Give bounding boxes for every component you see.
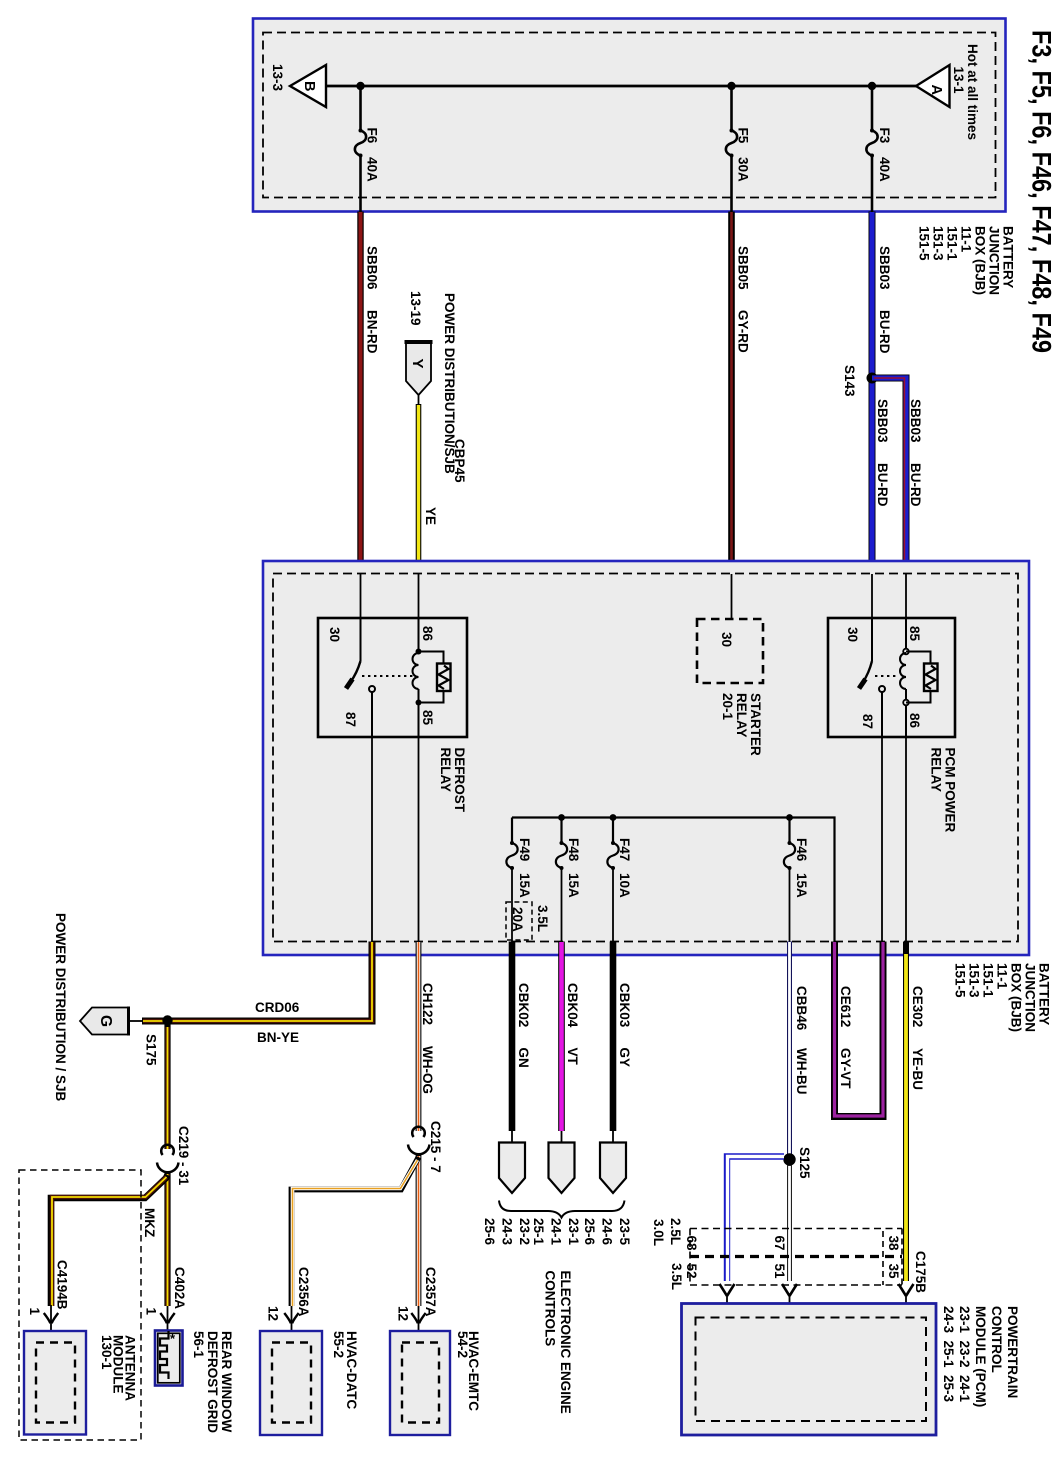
svg-text:38: 38 — [886, 1236, 901, 1252]
svg-text:SBB03: SBB03 — [877, 246, 892, 290]
svg-text:55-2: 55-2 — [331, 1331, 346, 1358]
svg-text:24-3: 24-3 — [500, 1218, 515, 1246]
svg-text:CBK03: CBK03 — [617, 983, 632, 1028]
pin 87 terminal — [369, 686, 375, 692]
svg-text:C4194B: C4194B — [55, 1260, 70, 1310]
svg-text:S143: S143 — [842, 365, 857, 397]
wire into PCM relay 85 — [905, 574, 907, 618]
wire defrost 87 down — [371, 737, 373, 942]
svg-text:52: 52 — [684, 1264, 699, 1279]
svg-text:CBB46: CBB46 — [794, 986, 809, 1031]
svg-text:151-3: 151-3 — [967, 963, 982, 998]
svg-text:F48: F48 — [566, 838, 581, 862]
svg-text:3.5L: 3.5L — [535, 905, 550, 932]
svg-text:C219 - 31: C219 - 31 — [176, 1126, 191, 1186]
svg-text:C175B: C175B — [913, 1251, 928, 1293]
svg-text:13-3: 13-3 — [270, 64, 285, 92]
wire CBB46 WH-BU — [790, 942, 810, 1155]
svg-text:23-5: 23-5 — [617, 1218, 632, 1246]
svg-text:BU-RD: BU-RD — [875, 463, 890, 507]
wire CBK02 GN — [512, 942, 531, 1144]
pin 30 lead — [871, 618, 873, 661]
svg-text:RELAY: RELAY — [438, 748, 453, 793]
wire SBB06 BN-RD — [361, 212, 380, 575]
svg-text:87: 87 — [343, 712, 358, 727]
fuse F3 40A — [866, 86, 892, 212]
svg-text:CE302: CE302 — [910, 986, 925, 1027]
svg-text:CE612: CE612 — [838, 986, 853, 1027]
svg-text:C2356A: C2356A — [296, 1267, 311, 1317]
svg-text:130-1: 130-1 — [99, 1335, 114, 1370]
svg-text:151-3: 151-3 — [931, 226, 946, 261]
svg-text:30: 30 — [845, 627, 860, 642]
wire SBB05 GY-RD — [732, 212, 751, 575]
svg-text:54-2: 54-2 — [455, 1331, 470, 1358]
svg-text:86: 86 — [420, 626, 435, 642]
wire into starter relay 30 — [731, 574, 733, 619]
svg-text:BOX (BJB): BOX (BJB) — [1009, 963, 1024, 1032]
svg-text:Y: Y — [409, 359, 426, 369]
svg-text:F49: F49 — [517, 838, 532, 861]
wire CBK03 GY — [613, 942, 632, 1144]
svg-text:24-1: 24-1 — [549, 1218, 564, 1246]
battery junction box (middle BJB enclosure) — [263, 561, 1029, 955]
svg-text:BATTERY: BATTERY — [1037, 963, 1052, 1025]
svg-text:11-1: 11-1 — [995, 963, 1010, 990]
svg-text:BATTERY: BATTERY — [1001, 226, 1016, 288]
inline connector C219-31 — [157, 1126, 191, 1186]
svg-text:3.5L: 3.5L — [669, 1263, 684, 1290]
svg-text:2.5L: 2.5L — [668, 1218, 683, 1245]
brace (engine controls group) — [499, 1201, 625, 1218]
svg-text:WH-OG: WH-OG — [420, 1046, 435, 1094]
connector pin arrow 67/51 — [782, 1284, 797, 1318]
relay starter relay (not used, dashed) — [697, 619, 763, 683]
svg-text:CONTROL: CONTROL — [989, 1306, 1004, 1373]
svg-text:F46: F46 — [794, 838, 809, 862]
svg-text:151-5: 151-5 — [953, 963, 968, 998]
svg-text:35: 35 — [886, 1264, 901, 1280]
svg-text:F6: F6 — [365, 128, 380, 144]
svg-text:1: 1 — [27, 1308, 42, 1316]
svg-text:BU-RD: BU-RD — [908, 463, 923, 507]
svg-text:SBB06: SBB06 — [365, 246, 380, 290]
fuse F48 15A — [556, 818, 581, 942]
MKZ variant enclosure (dashed) — [19, 1170, 141, 1440]
svg-text:F5: F5 — [736, 128, 751, 144]
svg-text:15A: 15A — [566, 873, 581, 898]
wire CE612 GY-VT (U link to fuse bus) — [835, 942, 884, 1117]
wire PCM 87 down — [881, 737, 883, 942]
svg-text:DEFROST GRID: DEFROST GRID — [205, 1331, 220, 1433]
svg-text:CBP45: CBP45 — [452, 439, 467, 483]
fuse bus line — [512, 818, 835, 942]
svg-text:VT: VT — [565, 1048, 580, 1066]
svg-text:151-1: 151-1 — [945, 226, 960, 261]
wire WH-BU to pin 67/51 — [787, 1165, 792, 1281]
wire into defrost relay 30 — [360, 574, 362, 618]
connector pin C4194B 1 — [27, 1260, 70, 1343]
svg-text:1: 1 — [144, 1308, 159, 1316]
svg-text:SBB03: SBB03 — [908, 399, 923, 443]
svg-text:C2357A: C2357A — [423, 1267, 438, 1317]
module HVAC-DATC — [260, 1331, 322, 1435]
ring terminal CBK04 — [549, 1143, 575, 1194]
svg-text:25-6: 25-6 — [482, 1218, 497, 1246]
svg-text:RELAY: RELAY — [734, 693, 749, 738]
mechanical link (dotted) — [875, 675, 898, 677]
svg-text:68: 68 — [684, 1236, 699, 1252]
svg-text:MODULE (PCM): MODULE (PCM) — [973, 1306, 988, 1407]
svg-text:CRD06: CRD06 — [255, 1000, 300, 1015]
label battery junction box (top) — [917, 226, 1016, 295]
svg-text:56-1: 56-1 — [191, 1331, 206, 1359]
svg-text:C402A: C402A — [172, 1267, 187, 1309]
switch arm — [351, 661, 361, 682]
splice S175 — [162, 1015, 172, 1025]
fuse F5 30A — [726, 86, 751, 212]
svg-text:YE-BU: YE-BU — [910, 1048, 925, 1090]
connector Y (power distribution SJB) — [405, 342, 433, 395]
node on bus at F5 — [727, 82, 735, 90]
wire BN-YE MKZ branch — [51, 1175, 168, 1306]
svg-text:GY-RD: GY-RD — [736, 310, 751, 353]
wire into defrost relay 86 — [418, 574, 420, 618]
ring terminal CBK03 — [600, 1143, 626, 1194]
connector pin arrow 38/35 — [899, 1284, 914, 1318]
svg-text:PCM POWER: PCM POWER — [943, 748, 958, 833]
svg-text:30: 30 — [719, 632, 734, 647]
svg-text:24-6: 24-6 — [600, 1218, 615, 1246]
svg-text:BN-RD: BN-RD — [365, 310, 380, 354]
svg-text:85: 85 — [907, 626, 922, 642]
svg-text:GY: GY — [617, 1048, 632, 1068]
svg-text:11-1: 11-1 — [959, 226, 974, 253]
svg-text:ELECTRONIC ENGINE: ELECTRONIC ENGINE — [558, 1271, 573, 1414]
bus wire (hot at all times) — [326, 85, 916, 88]
connector pin arrow 68/52 — [720, 1284, 735, 1318]
svg-text:151-1: 151-1 — [981, 963, 996, 998]
svg-text:CBK04: CBK04 — [565, 983, 580, 1028]
svg-text:15A: 15A — [794, 873, 809, 898]
svg-text:30A: 30A — [736, 157, 751, 182]
svg-text:20A: 20A — [510, 907, 525, 932]
connector pin C2356A 12 — [266, 1267, 312, 1343]
svg-text:10A: 10A — [617, 873, 632, 898]
fuse F6 40A — [355, 86, 380, 212]
svg-text:RELAY: RELAY — [929, 748, 944, 793]
svg-text:C215 - 7: C215 - 7 — [428, 1121, 443, 1173]
svg-text:CONTROLS: CONTROLS — [543, 1271, 558, 1347]
svg-text:CBK02: CBK02 — [516, 983, 531, 1027]
connector pin C2357A 12 — [396, 1267, 439, 1343]
svg-text:POWER DISTRIBUTION / SJB: POWER DISTRIBUTION / SJB — [53, 913, 68, 1102]
node on bus at F3 — [868, 82, 876, 90]
svg-text:F3: F3 — [877, 128, 892, 144]
svg-text:151-5: 151-5 — [917, 226, 932, 261]
svg-text:GN: GN — [516, 1048, 531, 1068]
connector pin C402A 1 — [144, 1267, 188, 1331]
svg-text:25-6: 25-6 — [582, 1218, 597, 1246]
svg-text:23-1 23-2 24-1: 23-1 23-2 24-1 — [957, 1306, 972, 1403]
splice S125 — [783, 1153, 795, 1165]
svg-text:40A: 40A — [877, 157, 892, 182]
wire SBB03 BU-RD (main) — [872, 212, 892, 575]
svg-text:F3, F5, F6, F46, F47, F48, F49: F3, F5, F6, F46, F47, F48, F49 — [1027, 30, 1057, 353]
pin 85 lead and coil — [905, 618, 907, 653]
node bus F47 — [610, 814, 617, 821]
splice S143 — [867, 373, 878, 384]
label 20A (3.5L alt) — [506, 902, 532, 940]
svg-text:DEFROST: DEFROST — [452, 748, 467, 813]
svg-text:SBB03: SBB03 — [875, 399, 890, 443]
svg-text:WH-BU: WH-BU — [794, 1048, 809, 1095]
node bus F48 — [558, 814, 565, 821]
fuse F49 15A — [506, 838, 532, 942]
triangle connector A — [916, 65, 950, 107]
svg-text:BOX (BJB): BOX (BJB) — [973, 226, 988, 295]
svg-text:BU-RD: BU-RD — [877, 310, 892, 354]
module HVAC-EMTC — [390, 1331, 450, 1435]
svg-text:A: A — [928, 85, 944, 96]
label battery junction box (bottom) — [953, 963, 1052, 1032]
svg-text:F47: F47 — [617, 838, 632, 861]
fuse F46 15A — [784, 818, 809, 942]
wire BN-YE from S175 down — [164, 1021, 170, 1149]
svg-text:67: 67 — [772, 1236, 787, 1251]
fuse F47 10A — [607, 818, 632, 942]
svg-text:S125: S125 — [797, 1147, 812, 1179]
svg-text:3.0L: 3.0L — [651, 1219, 666, 1246]
node bus F46 — [786, 814, 793, 821]
svg-text:23-2: 23-2 — [517, 1218, 532, 1245]
svg-text:30: 30 — [327, 627, 342, 642]
wire PCM 86 down — [905, 737, 907, 942]
svg-text:SBB05: SBB05 — [736, 246, 751, 290]
wire CBK04 VT — [562, 942, 581, 1144]
rear window defrost grid — [155, 1331, 183, 1386]
svg-text:STARTER: STARTER — [748, 693, 763, 756]
svg-text:85: 85 — [420, 710, 435, 726]
svg-text:BN-YE: BN-YE — [257, 1030, 299, 1045]
svg-text:15A: 15A — [517, 873, 532, 898]
svg-text:13-19: 13-19 — [408, 291, 423, 326]
svg-text:YE: YE — [423, 507, 438, 525]
wire CH122 WH-OG — [419, 942, 436, 1132]
svg-text:CH122: CH122 — [420, 983, 435, 1025]
svg-text:B: B — [301, 81, 317, 91]
wire BN-YE to C402A — [164, 1173, 170, 1306]
pin 87 terminal — [879, 686, 885, 692]
ring terminal CBK02 — [499, 1143, 525, 1194]
pin 30 lead — [360, 618, 362, 661]
svg-text:S175: S175 — [144, 1034, 159, 1066]
wire CRD06 BN-YE (defrost 87 output to G / S175) — [142, 942, 372, 1046]
svg-text:20-1: 20-1 — [720, 693, 735, 721]
switch arm — [863, 661, 872, 682]
wire WH-OG branch to C2356A — [292, 1157, 419, 1306]
wire defrost 85 down — [418, 737, 420, 942]
resistor loop — [419, 652, 444, 664]
svg-text:G: G — [97, 1015, 114, 1027]
svg-text:POWERTRAIN: POWERTRAIN — [1005, 1306, 1020, 1398]
wire WH-BU branch to pin 68/52 — [727, 1157, 784, 1282]
svg-text:JUNCTION: JUNCTION — [987, 226, 1002, 295]
connector G (power distribution / SJB) — [80, 1007, 142, 1036]
svg-text:GY-VT: GY-VT — [838, 1048, 853, 1089]
svg-text:86: 86 — [907, 713, 922, 729]
wire CBP45 YE — [419, 395, 468, 574]
wire into PCM relay 30 — [871, 574, 873, 618]
svg-text:40A: 40A — [365, 157, 380, 182]
svg-text:87: 87 — [860, 714, 875, 729]
antenna module — [24, 1331, 86, 1435]
inline connector C215-7 — [408, 1121, 443, 1173]
svg-text:12: 12 — [266, 1306, 281, 1321]
svg-text:MKZ: MKZ — [142, 1208, 157, 1237]
wire CE302 YE-BU — [906, 942, 925, 1282]
relay K2 PCM power relay — [828, 618, 955, 737]
relay K1 defrost relay — [318, 618, 467, 737]
powertrain control module (PCM) — [682, 1304, 937, 1436]
node on bus at F6 — [356, 82, 364, 90]
wire WH-OG to C2357A — [416, 1155, 422, 1306]
svg-text:Hot at all times: Hot at all times — [965, 44, 980, 140]
battery junction box (top BJB enclosure) — [253, 19, 1006, 212]
svg-text:12: 12 — [396, 1306, 411, 1321]
svg-text:13-1: 13-1 — [951, 67, 966, 95]
svg-text:23-1: 23-1 — [566, 1218, 581, 1246]
PCM pin table — [690, 1229, 902, 1286]
wire SBB03 BU-RD (branch from S143) — [872, 378, 923, 574]
mechanical link (dotted) — [362, 675, 413, 677]
svg-text:JUNCTION: JUNCTION — [1023, 963, 1038, 1032]
resistor loop — [906, 652, 931, 664]
svg-text:51: 51 — [772, 1264, 787, 1280]
svg-text:REAR WINDOW: REAR WINDOW — [219, 1331, 234, 1432]
svg-text:25-1: 25-1 — [531, 1218, 546, 1246]
svg-text:24-3 25-1 25-3: 24-3 25-1 25-3 — [941, 1306, 956, 1403]
pin 86 lead and coil — [418, 618, 420, 653]
triangle connector B — [290, 65, 326, 107]
